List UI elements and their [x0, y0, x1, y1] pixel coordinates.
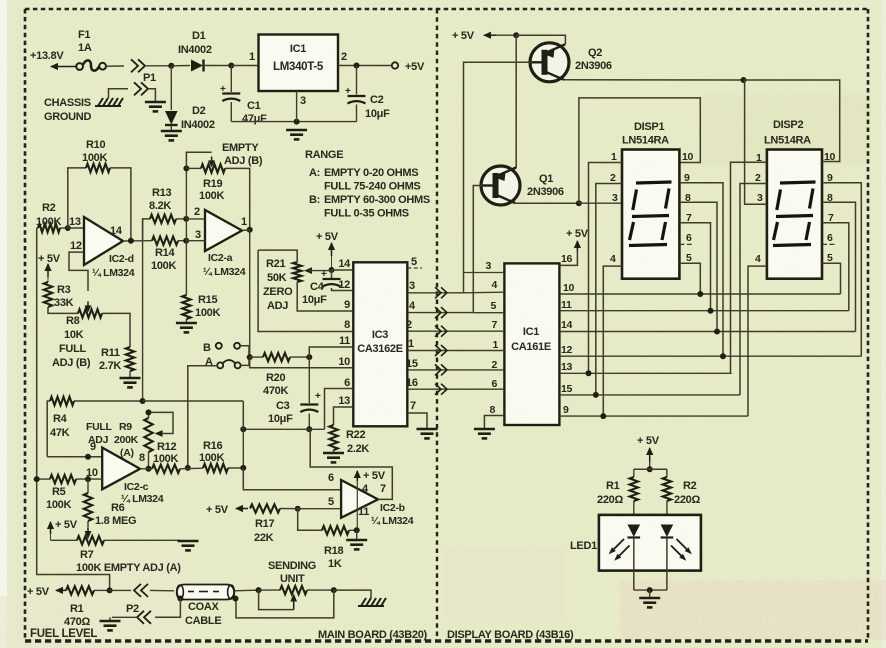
op-amp IC2-b [328, 480, 414, 527]
wire R1 node to P2 [110, 589, 131, 591]
wire DISP2 pin1 column [731, 162, 767, 373]
coax cable [177, 585, 235, 628]
bus row pin14 [559, 319, 855, 335]
wire to Q2 emitter [516, 35, 565, 44]
wire IC2-a output down to switch node [249, 230, 251, 357]
node +5V (display) [452, 30, 496, 42]
ground (R15) [176, 323, 197, 332]
wire LED supply [647, 461, 653, 472]
LED diode right [661, 525, 674, 591]
IC3 output pin 4 row [407, 300, 503, 318]
wire D1 to node A2 [204, 65, 232, 67]
node IC2-c output [140, 466, 152, 472]
connector P1 (upper) [131, 59, 156, 84]
DISP1 pin labels [610, 151, 694, 265]
resistor R14 100K [151, 237, 186, 273]
wire C3 bottom row [243, 428, 324, 430]
wire R21 bottom to pin 9 [297, 282, 353, 311]
wire node A1 to D2 [170, 66, 172, 110]
wire P1 to node A1 [145, 65, 171, 67]
LED1 module box [570, 515, 701, 571]
wire switch to node S [240, 346, 249, 366]
wire DISP2 pin5 column [822, 263, 841, 294]
wire DISP1 pin5 column [679, 263, 700, 294]
resistor R22 2.2K [329, 425, 369, 455]
connector P2 (lower) [137, 611, 151, 624]
potentiometer R19 100K EMPTY ADJ (B) [186, 142, 262, 202]
wire DISP2 pin3 from Q2 [745, 80, 767, 204]
wire node A1 to D1 [171, 65, 190, 67]
transistor Q2 2N3906 [529, 43, 612, 82]
wire Q1 collector row [515, 202, 579, 204]
wire R19 left column [185, 168, 187, 240]
node R12/R16 [180, 465, 203, 471]
wire pin 14 [332, 258, 354, 270]
IC3 output pin 16 row [406, 377, 503, 395]
connector P1 (lower) [134, 82, 148, 95]
resistor R6 1.8MEG [84, 479, 137, 527]
bus row pin13 [559, 361, 731, 376]
wire DISP1 pin6 stub [679, 243, 694, 245]
wire sender return loop [233, 590, 334, 618]
wire R19 right to output [225, 168, 250, 229]
resistor R4 47K [47, 397, 142, 457]
wire DISP2 pin4 column [748, 266, 767, 416]
node A2 junction [228, 63, 234, 69]
wire to Q1 emitter [515, 35, 517, 168]
wire R18 left [298, 509, 322, 531]
wire pin 13 to R22 [334, 395, 354, 425]
resistor R16 100K [199, 440, 243, 472]
wire shield to P2 lower [155, 599, 180, 618]
potentiometer R9 200K FULL ADJ (A) [86, 412, 173, 468]
voltage regulator IC1 LM340T-5 [259, 35, 339, 92]
wire pin 10 to node S [250, 356, 354, 368]
ground (IC3 pin7) [417, 429, 438, 438]
label fuel level [30, 628, 97, 640]
wire ground rail under IC1 [231, 119, 356, 125]
node R4/R13 junction [140, 398, 146, 404]
node IC2-a pin2 [183, 216, 189, 222]
wire IC2-d pin 12 to R8 wiper [69, 252, 88, 291]
node +5V (R1) [27, 586, 66, 598]
op-amp IC2-a [194, 206, 247, 278]
wire R13/R4 feedback column [142, 219, 144, 401]
wire DISP1 pin4 column [603, 266, 622, 416]
wire P2 lower to ground [110, 617, 137, 620]
resistor R3 33K [44, 282, 74, 309]
resistor R15 100K [182, 241, 220, 322]
wire DISP2 pin10 loop [744, 80, 840, 162]
wire pin13 [68, 216, 84, 228]
node +5V (LED) [637, 435, 660, 461]
wire pin 4/11 column [357, 481, 369, 530]
node +5V (R3 top) [38, 253, 61, 277]
node coax shield left [177, 596, 183, 602]
wire pin 5 stub [298, 508, 341, 510]
chassis ground (sender) [358, 598, 386, 606]
label display board [447, 629, 574, 641]
resistor R20 470K [250, 353, 310, 397]
wire R6 to R7 wiper [85, 521, 92, 539]
IC3 output pin 1 row [407, 338, 503, 356]
board divider (dashed) [436, 9, 438, 641]
wire LED branches top [634, 469, 667, 477]
fuse F1 [76, 29, 106, 71]
wire Q2 collector row [564, 79, 744, 81]
wire LED bottom [634, 587, 667, 597]
wire P1 lower to ground [148, 89, 155, 101]
node IC2-a pin3 [183, 238, 189, 244]
node IC2-a output [242, 227, 253, 233]
node R2/pin13 [65, 225, 71, 231]
display DISP1 LN514RA [622, 121, 679, 279]
node A1 junction [168, 63, 174, 69]
LED light arrows right [671, 539, 692, 561]
node R18/pin11 [354, 527, 360, 533]
wire pin 6 row from R16 node [243, 468, 341, 490]
node R1/P2 [107, 587, 113, 593]
wire C3 node down to R12/R16 row [242, 429, 244, 468]
resistor R2 220ohm (display) [663, 477, 701, 506]
resistor R11 2.7K [99, 347, 134, 372]
ground (D2) [161, 131, 182, 140]
display driver IC1 CA3161E [504, 263, 559, 425]
capacitor C3 10uF [268, 357, 321, 429]
label main board [318, 629, 428, 641]
resistor R1 220ohm (display) [597, 477, 638, 506]
wire IC1 pin 2 output [338, 51, 392, 66]
ground (IC2-b) [346, 540, 367, 549]
resistor R18 1K [322, 526, 357, 570]
LED light arrows left [609, 539, 630, 561]
wire DISP1 pin8 column [679, 202, 717, 331]
node Q1 collector junction [576, 200, 582, 206]
LED diode left [628, 525, 641, 591]
node R20/C3/pin11 [306, 354, 312, 360]
range note text [305, 149, 430, 220]
ground (R22) [323, 453, 344, 462]
wire DISP1 pin9 column [679, 183, 723, 356]
node +5V (IC3) [316, 231, 339, 256]
wire DISP2 pin7 column [822, 223, 849, 311]
op-amp IC2-d [70, 217, 135, 279]
wire R3 top [47, 277, 49, 282]
wire DISP2 pin2 column [740, 184, 767, 395]
wire fuse to P1 [106, 65, 124, 67]
node Q2 collector junction [741, 77, 747, 83]
wire sender wiper loop [259, 590, 294, 610]
wire IC1 pin8 ground [484, 416, 504, 429]
node +13.8V input arrow [30, 50, 76, 70]
wire Q1 base [473, 186, 483, 313]
resistor R13 8.2K [149, 187, 186, 223]
wire DISP2 pin6 stub [822, 243, 836, 245]
wire pin 11 [309, 335, 353, 357]
node +5V (IC2-b) [354, 470, 386, 482]
wire coax to sender [234, 589, 259, 592]
node sender left [256, 587, 262, 593]
resistor R1 470ohm [64, 586, 110, 628]
potentiometer R21 50K ZERO ADJ [258, 250, 331, 312]
bus row pin15 [559, 383, 740, 398]
wire Q2 base [464, 62, 533, 292]
node R4 column top [240, 426, 246, 432]
wire sender to chassis [334, 590, 371, 598]
resistor R17 22K [250, 504, 298, 544]
bus row pin12 [559, 344, 861, 359]
wire DISP2 pin8 column [822, 202, 856, 331]
node pin10/R6 [85, 476, 91, 482]
potentiometer R7 100K EMPTY ADJ (A) [51, 536, 182, 574]
wire DISP1 pin1 column [589, 163, 623, 374]
node pin14/C4 [329, 267, 335, 273]
ground (P1) [145, 102, 166, 111]
wire DISP1 pin10 loop [579, 98, 700, 203]
ground (R7) [178, 541, 199, 550]
wire pin 5 stub [407, 256, 422, 268]
7-segment digit DISP1 [629, 182, 672, 246]
diode D1 IN4002 [178, 30, 212, 72]
wire IC1 pin 3 [297, 91, 306, 122]
node S junction [247, 354, 253, 360]
node +5V (IC1 pin16) [566, 228, 589, 251]
wire R7 left [50, 534, 52, 540]
wire node A2 to IC1 pin 1 [231, 51, 258, 66]
wire pin 7 to ground [407, 400, 427, 428]
wire pin 6 [325, 377, 354, 429]
DISP2 pin labels [755, 151, 836, 265]
IC1 left pin rows [464, 260, 505, 416]
capacitor C1 47uF [220, 66, 267, 126]
node Q supply junction [513, 32, 519, 38]
wire chassis to P1 lower [109, 89, 129, 98]
wire IC1 pin16 [559, 251, 577, 265]
wire R4 row to C3 column [143, 400, 244, 402]
chassis ground (input) [44, 97, 123, 123]
main IC3 CA3162E [353, 262, 407, 426]
wire R21 loop to pin 8 [258, 250, 353, 331]
node +5V (R17) [206, 504, 248, 516]
ground (shield) [100, 621, 121, 630]
7-segment digit DISP2 [773, 182, 816, 246]
bus row pin9 [559, 404, 748, 419]
wire pins 2,3 stubs [186, 219, 205, 241]
ground (IC1 pin3) [286, 130, 307, 139]
ground (R11) [120, 378, 141, 387]
wire R11 to ground [129, 371, 131, 377]
IC3 output pin 2 row [406, 319, 503, 337]
wire pin 9 row [47, 441, 102, 460]
node R5 left [34, 476, 40, 482]
wire DISP1 pin7 column [679, 223, 710, 311]
IC3 output pin 15 row [406, 358, 503, 375]
wire R13 branch [143, 219, 150, 241]
wire DISP1 pin2 column [596, 184, 622, 395]
resistor R12 100K [152, 441, 180, 473]
bus row pin11 [559, 299, 848, 314]
node R16 right [240, 465, 246, 471]
wire IC2-d output node [123, 238, 152, 244]
IC3 output pin 3 row [407, 280, 503, 298]
node +5V (R7) [47, 519, 78, 534]
wire DISP2 pin9 column [822, 183, 861, 356]
op-amp IC2-c [86, 448, 164, 505]
ground (IC1 pin8) [474, 429, 495, 438]
wire pin11 to ground [356, 530, 358, 539]
capacitor C2 10uF [345, 66, 390, 122]
switch B/A [203, 342, 241, 368]
node +5V output terminal [354, 61, 425, 73]
wire switch A to IC2-c output row [188, 366, 217, 468]
wire +5V to Q junction [496, 34, 516, 36]
diode D2 IN4002 [165, 105, 215, 131]
node R19 left [183, 165, 189, 171]
resistor R10 100K feedback loop [68, 139, 131, 241]
node R9 top [146, 409, 152, 415]
wire resistors to LED box [634, 501, 667, 524]
ground (LED) [639, 598, 660, 607]
connector P2 (upper) [126, 584, 148, 615]
wire +5V to pin14 node [331, 256, 333, 270]
bus row pin10 [559, 282, 840, 297]
wire P2 to coax [150, 589, 174, 591]
node R17/pin5 [295, 506, 301, 512]
capacitor C4 10uF [302, 269, 353, 306]
node sender right [331, 587, 337, 593]
node C3 bottom [306, 426, 312, 432]
transistor Q1 2N3906 [480, 166, 564, 205]
wire R4 row to C3 row [242, 401, 244, 429]
potentiometer R8 10K FULL ADJ (B) [52, 301, 102, 369]
wire Q1 collector to DISP1 pin3 [579, 202, 622, 204]
sending unit potentiometer [259, 560, 334, 610]
wire R8 to R11 [102, 313, 130, 347]
resistor R5 100K [37, 475, 103, 511]
wire R3 to R8 [48, 307, 78, 313]
wire input column (left) [37, 228, 110, 590]
display DISP2 LN514RA [764, 119, 822, 279]
resistor R2 100K [36, 202, 68, 232]
wire IC2-b output loop [310, 429, 392, 499]
